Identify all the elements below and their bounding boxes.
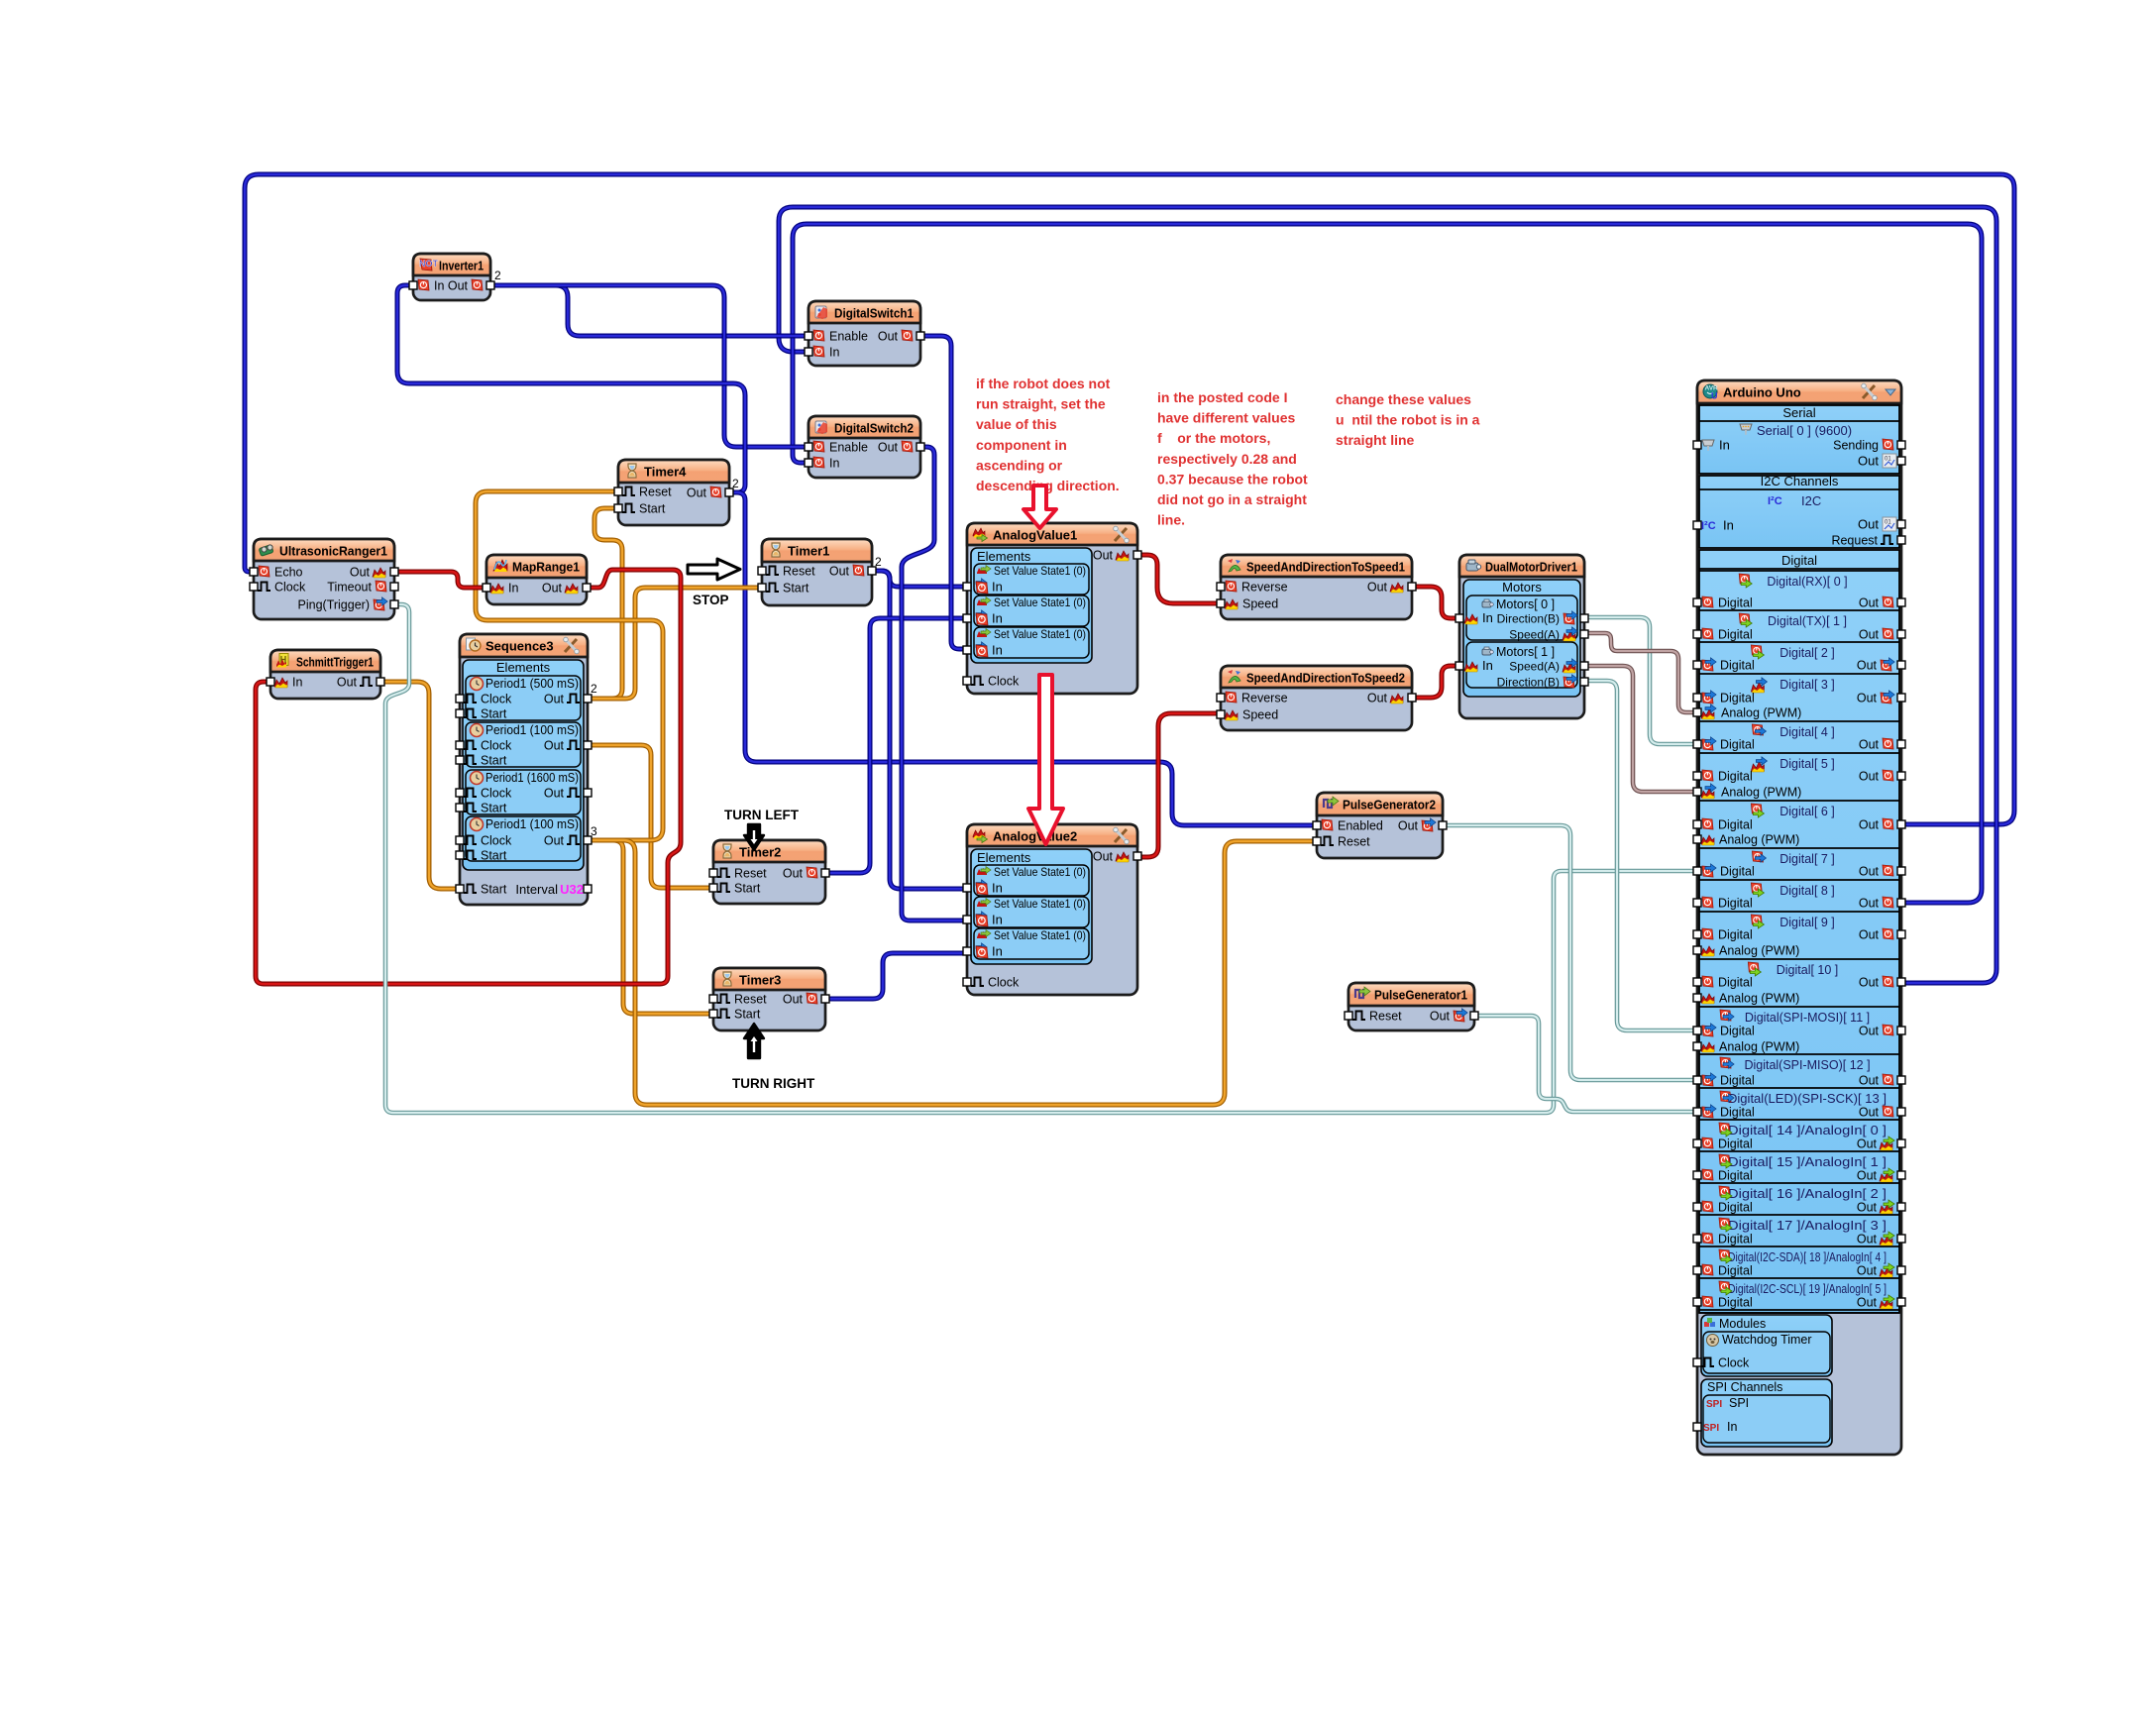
svg-text:Timer1: Timer1 xyxy=(788,544,829,559)
wire Sequence3.Out1 -> Timer4.Start xyxy=(588,508,622,699)
svg-text:Digital: Digital xyxy=(1718,1296,1753,1310)
svg-text:Elements: Elements xyxy=(977,850,1031,865)
svg-text:Digital: Digital xyxy=(1718,628,1753,642)
wire Timer3.Out -> AnalogValue2.In3 xyxy=(825,953,967,999)
svg-text:Out: Out xyxy=(1430,1010,1451,1024)
svg-text:Out: Out xyxy=(1859,1025,1880,1038)
svg-text:Arduino Uno: Arduino Uno xyxy=(1723,385,1801,400)
svg-text:Digital[ 4 ]: Digital[ 4 ] xyxy=(1779,725,1835,739)
channel Arduino Digital[ 8 ] xyxy=(1699,879,1899,881)
svg-text:Set Value State1 (0): Set Value State1 (0) xyxy=(994,564,1086,578)
svg-text:Analog (PWM): Analog (PWM) xyxy=(1719,833,1799,847)
svg-text:did not go in a straight: did not go in a straight xyxy=(1157,491,1307,507)
channel Arduino Digital[ 15 ]/AnalogIn[ 1 ] xyxy=(1699,1150,1899,1152)
svg-text:Digital: Digital xyxy=(1718,1169,1753,1183)
svg-text:Clock: Clock xyxy=(988,976,1020,990)
svg-text:Out: Out xyxy=(783,993,804,1007)
svg-text:Digital: Digital xyxy=(1718,770,1753,784)
svg-text:Out: Out xyxy=(1859,865,1880,879)
svg-text:Speed(A): Speed(A) xyxy=(1509,628,1560,642)
svg-text:2: 2 xyxy=(494,269,501,282)
channel Arduino Digital(I2C-SCL)[ 19 ]/AnalogIn[ 5 ] xyxy=(1699,1277,1899,1279)
block MapRange1 xyxy=(486,555,587,604)
svg-text:Digital: Digital xyxy=(1718,1137,1753,1151)
svg-text:Out: Out xyxy=(337,676,358,690)
svg-text:Digital(TX)[ 1 ]: Digital(TX)[ 1 ] xyxy=(1768,614,1847,628)
channel Arduino Digital[ 9 ] xyxy=(1699,911,1899,913)
svg-text:Out: Out xyxy=(1857,659,1878,673)
svg-text:Out: Out xyxy=(448,279,469,293)
svg-text:Out: Out xyxy=(1859,897,1880,911)
block DigitalSwitch2 xyxy=(808,416,920,478)
svg-text:Direction(B): Direction(B) xyxy=(1497,676,1560,690)
element Arduino Watchdog Timer xyxy=(1703,1332,1830,1373)
svg-text:Clock: Clock xyxy=(481,834,512,848)
wire Timer2.Out -> AnalogValue1.In2 xyxy=(825,618,967,873)
pin AnalogValue1.Clock xyxy=(963,677,971,685)
svg-text:Out: Out xyxy=(544,787,565,801)
svg-text:Out: Out xyxy=(829,565,850,579)
svg-text:Set Value State1 (0): Set Value State1 (0) xyxy=(994,627,1086,641)
svg-text:Out: Out xyxy=(878,330,899,344)
svg-text:Ping(Trigger): Ping(Trigger) xyxy=(298,598,370,612)
svg-text:Serial[ 0 ] (9600): Serial[ 0 ] (9600) xyxy=(1757,423,1852,438)
svg-text:Enable: Enable xyxy=(829,441,868,455)
svg-text:ascending or: ascending or xyxy=(976,457,1063,473)
channel Arduino Digital[ 6 ] xyxy=(1699,800,1899,802)
svg-text:SchmittTrigger1: SchmittTrigger1 xyxy=(296,655,374,670)
svg-text:Digital(RX)[ 0 ]: Digital(RX)[ 0 ] xyxy=(1767,575,1847,589)
element Sequence3 Period1 (500 mS) xyxy=(466,676,581,720)
wire Sequence3.Out2 -> Timer2.Start xyxy=(588,745,713,888)
wire Timer1.Out -> AnalogValue2.In1 xyxy=(872,571,967,889)
svg-text:Timer4: Timer4 xyxy=(644,465,687,480)
svg-text:Out: Out xyxy=(1093,850,1114,864)
block Arduino Uno xyxy=(1697,380,1901,1455)
svg-text:Digital[ 16 ]/AnalogIn[ 2 ]: Digital[ 16 ]/AnalogIn[ 2 ] xyxy=(1728,1187,1886,1201)
block Timer4 xyxy=(618,460,729,525)
wire Sequence3.Out4 -> Timer4.Reset xyxy=(476,491,663,840)
wire Timer4.Out -> Inverter1.In xyxy=(397,285,745,492)
svg-text:U32: U32 xyxy=(560,882,584,897)
svg-text:Out: Out xyxy=(1857,1233,1878,1246)
svg-text:change these values: change these values xyxy=(1336,391,1471,407)
svg-text:Start: Start xyxy=(734,1008,761,1022)
svg-text:SpeedAndDirectionToSpeed2: SpeedAndDirectionToSpeed2 xyxy=(1246,671,1405,686)
wire Timer4.Out -> PulseGenerator2.Enabled xyxy=(729,492,1317,825)
svg-text:Clock: Clock xyxy=(481,693,512,706)
svg-text:Digital(I2C-SDA)[ 18 ]/AnalogI: Digital(I2C-SDA)[ 18 ]/AnalogIn[ 4 ] xyxy=(1728,1250,1886,1264)
block AnalogValue2 xyxy=(967,824,1137,995)
svg-text:Elements: Elements xyxy=(496,660,551,675)
svg-text:in the posted code I: in the posted code I xyxy=(1157,389,1287,405)
svg-text:have different values: have different values xyxy=(1157,410,1295,426)
svg-text:Out: Out xyxy=(1859,738,1880,752)
wire DigitalSwitch1.Out -> AnalogValue1.In3 xyxy=(920,336,967,649)
svg-text:Digital: Digital xyxy=(1718,1233,1753,1246)
channel Arduino Digital[ 7 ] xyxy=(1699,847,1899,849)
svg-text:Out: Out xyxy=(1858,454,1879,469)
svg-text:Reset: Reset xyxy=(639,486,672,499)
svg-text:Digital: Digital xyxy=(1720,738,1755,752)
svg-text:PulseGenerator1: PulseGenerator1 xyxy=(1374,988,1467,1003)
svg-text:Echo: Echo xyxy=(274,566,303,580)
panel Arduino SPI Channels xyxy=(1701,1379,1832,1447)
svg-text:I²C: I²C xyxy=(1701,520,1716,532)
channel Arduino Digital[ 16 ]/AnalogIn[ 2 ] xyxy=(1699,1182,1899,1184)
svg-text:Digital[ 6 ]: Digital[ 6 ] xyxy=(1779,805,1835,818)
channel Arduino Digital[ 5 ] xyxy=(1699,752,1899,754)
channel Arduino Digital(LED)(SPI-SCK)[ 13 ] xyxy=(1699,1087,1899,1089)
svg-text:Sending: Sending xyxy=(1833,439,1879,453)
svg-text:Out: Out xyxy=(544,693,565,706)
panel Arduino Modules xyxy=(1701,1315,1832,1376)
element Sequence3 Period1 (100 mS) xyxy=(466,722,581,767)
wire DualMotorDriver1.Speed(A)[0] -> Arduino Analog(PWM)[3] xyxy=(1584,633,1697,712)
svg-text:Motors[ 0 ]: Motors[ 0 ] xyxy=(1496,597,1555,611)
svg-text:In: In xyxy=(1727,1420,1737,1434)
svg-text:Timer3: Timer3 xyxy=(739,973,781,988)
svg-text:Out: Out xyxy=(783,867,804,881)
element DualMotorDriver1 Motors[0] xyxy=(1466,596,1577,640)
svg-text:Out: Out xyxy=(1859,596,1880,610)
channel Arduino Digital[ 17 ]/AnalogIn[ 3 ] xyxy=(1699,1214,1899,1216)
svg-text:2: 2 xyxy=(732,477,739,490)
svg-text:Serial: Serial xyxy=(1782,405,1815,420)
block DigitalSwitch1 xyxy=(808,301,920,366)
svg-text:Reset: Reset xyxy=(783,565,815,579)
block PulseGenerator2 xyxy=(1317,793,1443,858)
svg-text:Out: Out xyxy=(1857,1296,1878,1310)
channel Arduino Digital(TX)[ 1 ] xyxy=(1699,609,1899,611)
svg-text:SPI: SPI xyxy=(1729,1396,1749,1410)
svg-text:Digital(I2C-SCL)[ 19 ]/AnalogI: Digital(I2C-SCL)[ 19 ]/AnalogIn[ 5 ] xyxy=(1728,1282,1886,1296)
svg-text:Out: Out xyxy=(1859,976,1880,990)
svg-text:Period1 (1600 mS): Period1 (1600 mS) xyxy=(485,771,579,785)
element AnalogValue2 Set Value State1 (1) xyxy=(974,897,1089,927)
svg-text:Digital(LED)(SPI-SCK)[ 13 ]: Digital(LED)(SPI-SCK)[ 13 ] xyxy=(1728,1092,1886,1106)
svg-text:Period1 (100 mS): Period1 (100 mS) xyxy=(485,723,579,737)
svg-text:Out: Out xyxy=(1858,517,1879,532)
section Arduino I2C Channels xyxy=(1699,476,1899,548)
wire Inverter1.Out -> DigitalSwitch1.Enable xyxy=(490,285,808,336)
svg-text:Request: Request xyxy=(1831,534,1878,548)
svg-text:TURN RIGHT: TURN RIGHT xyxy=(732,1076,815,1091)
element AnalogValue1 Set Value State1 (1) xyxy=(974,596,1089,626)
svg-text:Set Value State1 (0): Set Value State1 (0) xyxy=(994,928,1086,942)
svg-text:Out: Out xyxy=(1859,1074,1880,1088)
svg-text:Period1 (100 mS): Period1 (100 mS) xyxy=(485,817,579,831)
wire MapRange1.Out -> SchmittTrigger1.In xyxy=(256,570,681,984)
svg-text:Analog (PWM): Analog (PWM) xyxy=(1721,786,1801,800)
channel Arduino Digital(RX)[ 0 ] xyxy=(1699,570,1899,572)
svg-text:Digital[ 5 ]: Digital[ 5 ] xyxy=(1779,757,1835,771)
svg-text:Analog (PWM): Analog (PWM) xyxy=(1719,992,1799,1006)
element Sequence3 Period1 (1600 mS) xyxy=(466,770,581,814)
wire Inverter1.Out -> DigitalSwitch2.Enable xyxy=(490,285,808,447)
svg-text:Out: Out xyxy=(542,582,563,596)
svg-text:Clock: Clock xyxy=(481,739,512,753)
wire Arduino Digital[6].Out -> UltrasonicRanger1.Echo xyxy=(245,174,2014,824)
wire PulseGenerator2.Out -> Arduino Digital[12] xyxy=(1443,825,1697,1080)
block UltrasonicRanger1 xyxy=(254,539,394,619)
svg-text:Digital: Digital xyxy=(1718,928,1753,942)
svg-text:Reset: Reset xyxy=(734,867,767,881)
svg-text:Out: Out xyxy=(1093,549,1114,563)
svg-text:Clock: Clock xyxy=(274,581,306,595)
svg-text:Out: Out xyxy=(1398,819,1419,833)
svg-text:SPI: SPI xyxy=(1703,1423,1719,1434)
svg-text:u ntil the robot is in a: u ntil the robot is in a xyxy=(1336,412,1480,428)
block PulseGenerator1 xyxy=(1348,983,1474,1030)
svg-text:I2C Channels: I2C Channels xyxy=(1761,474,1839,488)
annotation: STOP arrow xyxy=(688,559,740,580)
svg-text:Out: Out xyxy=(544,739,565,753)
pin Arduino SPI In xyxy=(1693,1423,1701,1431)
svg-text:TURN LEFT: TURN LEFT xyxy=(724,808,800,822)
svg-text:Digital: Digital xyxy=(1718,1264,1753,1278)
svg-text:In: In xyxy=(1723,518,1734,533)
svg-text:In: In xyxy=(992,643,1003,658)
svg-text:Start: Start xyxy=(734,882,761,896)
block AnalogValue1 xyxy=(967,523,1137,694)
svg-text:Out: Out xyxy=(1857,1137,1878,1151)
svg-text:Digital[ 8 ]: Digital[ 8 ] xyxy=(1779,884,1835,898)
svg-text:line.: line. xyxy=(1157,512,1185,528)
svg-text:I2C: I2C xyxy=(1801,493,1821,508)
svg-text:Out: Out xyxy=(350,566,371,580)
svg-text:Speed: Speed xyxy=(1242,708,1278,722)
svg-text:Set Value State1 (0): Set Value State1 (0) xyxy=(994,596,1086,609)
channel Arduino Digital(SPI-MISO)[ 12 ] xyxy=(1699,1053,1899,1055)
svg-text:Digital: Digital xyxy=(1720,1074,1755,1088)
svg-text:Timeout: Timeout xyxy=(327,581,372,595)
svg-text:run straight, set the: run straight, set the xyxy=(976,396,1106,412)
svg-text:Start: Start xyxy=(639,502,666,516)
svg-text:AnalogValue1: AnalogValue1 xyxy=(993,528,1077,543)
svg-text:Digital: Digital xyxy=(1718,596,1753,610)
svg-text:component in: component in xyxy=(976,437,1067,453)
svg-text:2: 2 xyxy=(875,555,882,569)
svg-text:Digital[ 9 ]: Digital[ 9 ] xyxy=(1779,916,1835,929)
section Arduino Serial xyxy=(1699,405,1899,474)
element Sequence3 Period1 (100 mS) xyxy=(466,816,581,861)
wire Arduino Digital[10].Out -> DigitalSwitch1.In xyxy=(779,207,1996,983)
svg-text:Start: Start xyxy=(783,582,809,596)
svg-text:Digital[ 10 ]: Digital[ 10 ] xyxy=(1777,963,1839,977)
svg-text:Clock: Clock xyxy=(481,787,512,801)
svg-text:Out: Out xyxy=(1367,692,1388,705)
svg-text:Digital: Digital xyxy=(1718,818,1753,832)
svg-text:Start: Start xyxy=(481,754,507,768)
svg-text:Reset: Reset xyxy=(1338,835,1370,849)
channel Arduino Digital(SPI-MOSI)[ 11 ] xyxy=(1699,1006,1899,1008)
annotation: TURN RIGHT arrow (up) xyxy=(744,1024,764,1058)
channel Arduino Digital[ 14 ]/AnalogIn[ 0 ] xyxy=(1699,1119,1899,1121)
svg-text:Enabled: Enabled xyxy=(1338,819,1383,833)
pin Arduino Watchdog Clock xyxy=(1693,1358,1701,1366)
svg-text:Enable: Enable xyxy=(829,330,868,344)
svg-text:NOT: NOT xyxy=(419,259,439,269)
block SchmittTrigger1 xyxy=(270,650,380,699)
section Arduino Digital xyxy=(1699,550,1899,1313)
wire SchmittTrigger1.Out -> Sequence3.Start xyxy=(380,682,460,889)
svg-text:In: In xyxy=(992,944,1003,959)
svg-text:PulseGenerator2: PulseGenerator2 xyxy=(1343,798,1436,812)
svg-text:In: In xyxy=(992,611,1003,626)
channel Arduino Digital[ 4 ] xyxy=(1699,720,1899,722)
svg-text:Start: Start xyxy=(481,883,507,897)
svg-text:Out: Out xyxy=(1859,770,1880,784)
svg-text:AnalogValue2: AnalogValue2 xyxy=(993,829,1077,844)
svg-text:Digital[ 17 ]/AnalogIn[ 3 ]: Digital[ 17 ]/AnalogIn[ 3 ] xyxy=(1728,1219,1886,1233)
block Timer2 xyxy=(713,840,825,904)
element AnalogValue2 Set Value State1 (2) xyxy=(974,928,1089,959)
wire Sequence3.Out4 -> Timer3.Start xyxy=(588,840,713,1014)
svg-text:Out: Out xyxy=(1859,628,1880,642)
svg-text:In: In xyxy=(1482,610,1493,625)
wire UltrasonicRanger1.Ping(Trigger) -> Arduino Digital[7] xyxy=(385,604,1697,1113)
svg-text:Clock: Clock xyxy=(1718,1356,1750,1370)
svg-text:Digital(SPI-MISO)[ 12 ]: Digital(SPI-MISO)[ 12 ] xyxy=(1744,1058,1870,1072)
svg-text:In: In xyxy=(992,913,1003,927)
wire AnalogValue1.Out -> SpeedAndDirectionToSpeed1.Speed xyxy=(1137,555,1221,603)
block Sequence3 xyxy=(460,634,588,905)
svg-text:Digital: Digital xyxy=(1718,897,1753,911)
svg-text:In: In xyxy=(829,457,839,471)
svg-text:In: In xyxy=(508,582,518,596)
wire DualMotorDriver1.Direction(B)[0] -> Arduino Digital[4] xyxy=(1584,617,1697,744)
svg-text:Out: Out xyxy=(687,487,707,500)
svg-text:SpeedAndDirectionToSpeed1: SpeedAndDirectionToSpeed1 xyxy=(1246,560,1405,575)
svg-text:Modules: Modules xyxy=(1719,1317,1766,1331)
svg-text:Digital[ 15 ]/AnalogIn[ 1 ]: Digital[ 15 ]/AnalogIn[ 1 ] xyxy=(1728,1155,1886,1169)
wire DualMotorDriver1.Direction(B)[1] -> Arduino Digital[11] xyxy=(1584,681,1697,1030)
svg-text:Out: Out xyxy=(1857,1169,1878,1183)
svg-text:Clock: Clock xyxy=(988,675,1020,689)
svg-text:3: 3 xyxy=(591,824,597,838)
svg-text:In: In xyxy=(992,881,1003,896)
svg-text:Inverter1: Inverter1 xyxy=(439,259,484,273)
svg-text:Speed(A): Speed(A) xyxy=(1509,660,1560,674)
svg-text:In: In xyxy=(1482,658,1493,673)
svg-text:2: 2 xyxy=(591,682,597,696)
svg-text:Reverse: Reverse xyxy=(1241,581,1288,595)
element AnalogValue1 Set Value State1 (2) xyxy=(974,627,1089,658)
block Inverter1 xyxy=(413,254,490,300)
element AnalogValue1 Set Value State1 (0) xyxy=(974,564,1089,595)
svg-text:Digital: Digital xyxy=(1718,976,1753,990)
block SpeedAndDirectionToSpeed1 xyxy=(1221,555,1412,619)
annotation: TURN LEFT arrow (down) xyxy=(744,824,764,850)
svg-text:Out: Out xyxy=(1367,581,1388,595)
svg-text:In: In xyxy=(992,580,1003,595)
svg-text:Out: Out xyxy=(878,441,899,455)
svg-text:if the robot does not: if the robot does not xyxy=(976,376,1111,391)
pin Sequence3 Start / Interval xyxy=(456,885,464,893)
channel Arduino Digital[ 3 ] xyxy=(1699,673,1899,675)
wire SpeedAndDirectionToSpeed1.Out -> DualMotorDriver1.In[0] xyxy=(1412,587,1459,618)
wire Timer1.Out -> AnalogValue1.In1 xyxy=(872,571,967,587)
element DualMotorDriver1 Motors[1] xyxy=(1466,642,1577,688)
wire DigitalSwitch2.Out -> AnalogValue2.In2 xyxy=(902,447,967,921)
svg-text:Start: Start xyxy=(481,802,507,815)
wire Sequence3.Out1 -> Timer1.Start xyxy=(588,588,762,699)
svg-text:Out: Out xyxy=(544,834,565,848)
wire UltrasonicRanger1.Out -> MapRange1.In xyxy=(394,572,486,588)
wire PulseGenerator1.Out -> Arduino Digital[13] xyxy=(1474,1016,1697,1112)
svg-text:Digital(SPI-MOSI)[ 11 ]: Digital(SPI-MOSI)[ 11 ] xyxy=(1745,1011,1870,1025)
svg-text:Reset: Reset xyxy=(734,993,767,1007)
wire Sequence3.Out4 -> PulseGenerator2.Reset xyxy=(588,840,1317,1105)
svg-text:SPI Channels: SPI Channels xyxy=(1707,1380,1782,1394)
annotation: red arrow AnalogValue1 -> AnalogValue2 xyxy=(1028,675,1063,844)
annotation: red arrow into AnalogValue1 xyxy=(1024,486,1056,528)
svg-text:Period1 (500 mS): Period1 (500 mS) xyxy=(485,677,579,691)
svg-text:Out: Out xyxy=(1859,818,1880,832)
svg-text:STOP: STOP xyxy=(693,593,729,607)
svg-text:Direction(B): Direction(B) xyxy=(1497,612,1560,626)
block Timer1 xyxy=(762,539,872,605)
svg-text:respectively 0.28 and: respectively 0.28 and xyxy=(1157,451,1297,467)
svg-text:Digital: Digital xyxy=(1720,1106,1755,1120)
channel Arduino Digital[ 10 ] xyxy=(1699,958,1899,960)
block Timer3 xyxy=(713,968,825,1030)
wire DualMotorDriver1.Speed(A)[1] -> Arduino Analog(PWM)[5] xyxy=(1584,666,1697,792)
svg-text:Digital: Digital xyxy=(1720,659,1755,673)
svg-text:Out: Out xyxy=(1859,1106,1880,1120)
svg-text:Speed: Speed xyxy=(1242,597,1278,611)
svg-text:Start: Start xyxy=(481,707,507,721)
svg-text:Motors[ 1 ]: Motors[ 1 ] xyxy=(1496,645,1555,659)
svg-text:Analog (PWM): Analog (PWM) xyxy=(1721,706,1801,720)
pin AnalogValue2.Clock xyxy=(963,978,971,986)
svg-text:In: In xyxy=(1719,438,1730,453)
svg-text:Digital[ 7 ]: Digital[ 7 ] xyxy=(1779,852,1835,866)
svg-text:Digital: Digital xyxy=(1781,553,1817,568)
svg-text:value of this: value of this xyxy=(976,416,1057,432)
svg-text:Digital: Digital xyxy=(1720,865,1755,879)
svg-text:Digital[ 14 ]/AnalogIn[ 0 ]: Digital[ 14 ]/AnalogIn[ 0 ] xyxy=(1728,1124,1886,1137)
svg-text:Watchdog Timer: Watchdog Timer xyxy=(1722,1333,1812,1347)
svg-text:Out: Out xyxy=(1857,692,1878,705)
svg-text:SPI: SPI xyxy=(1706,1399,1722,1410)
svg-text:f or the motors,: f or the motors, xyxy=(1157,430,1270,446)
svg-text:Interval: Interval xyxy=(515,882,558,897)
svg-text:Analog (PWM): Analog (PWM) xyxy=(1719,1040,1799,1054)
block DualMotorDriver1 xyxy=(1459,555,1584,718)
svg-text:I²C: I²C xyxy=(1768,495,1782,507)
wire Arduino Digital[8].Out -> DigitalSwitch2.In xyxy=(793,224,1982,903)
svg-text:0.37 because the robot: 0.37 because the robot xyxy=(1157,471,1308,487)
svg-text:Out: Out xyxy=(1859,928,1880,942)
svg-text:DigitalSwitch2: DigitalSwitch2 xyxy=(834,421,914,436)
svg-text:Reverse: Reverse xyxy=(1241,692,1288,705)
svg-text:straight line: straight line xyxy=(1336,432,1415,448)
svg-text:Start: Start xyxy=(481,849,507,863)
svg-text:Set Value State1 (0): Set Value State1 (0) xyxy=(994,865,1086,879)
svg-text:Digital[ 2 ]: Digital[ 2 ] xyxy=(1779,646,1835,660)
svg-text:Sequence3: Sequence3 xyxy=(485,639,554,654)
svg-text:Out: Out xyxy=(1857,1264,1878,1278)
svg-text:U: U xyxy=(1711,391,1718,401)
svg-text:Out: Out xyxy=(1857,1201,1878,1215)
channel Arduino Digital(I2C-SDA)[ 18 ]/AnalogIn[ 4 ] xyxy=(1699,1246,1899,1247)
channel Arduino Digital[ 2 ] xyxy=(1699,641,1899,643)
svg-text:UltrasonicRanger1: UltrasonicRanger1 xyxy=(279,544,387,559)
svg-text:Motors: Motors xyxy=(1502,580,1542,595)
svg-text:MapRange1: MapRange1 xyxy=(512,560,580,575)
